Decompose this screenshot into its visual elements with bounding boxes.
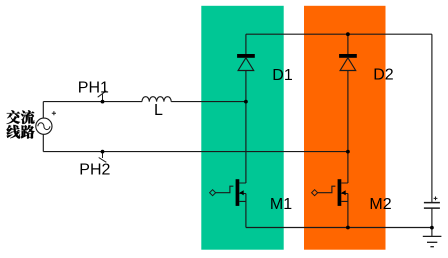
svg-text:D2: D2 [373,67,394,84]
wire: M2 source down to bottom rail [347,194,349,228]
node: PH2 rail to D2 anode [346,150,350,154]
diode D1 [237,54,255,71]
phase-leg highlight band 2 (orange) [304,6,386,250]
wire: AC source top lead [42,102,44,119]
wire: D2 cathode to top rail [347,34,349,54]
PH2 probe tick [99,153,107,163]
svg-text:PH2: PH2 [79,162,110,179]
svg-text:M1: M1 [270,196,292,213]
diode D2 [339,54,357,71]
node: M2 source on bottom rail [346,226,350,230]
wire: bottom rail [246,227,432,229]
node: PH2 junction [101,150,105,154]
AC source V1 [36,111,56,134]
ground [423,236,442,246]
svg-text:L: L [154,102,163,119]
wire: right-side rail down to capacitor [431,34,433,202]
node: D2 cathode on top rail [346,32,350,36]
MOSFET M1 [210,179,246,206]
svg-text:PH1: PH1 [78,79,109,96]
MOSFET M2 [312,179,348,206]
wire: D2 anode down through PH2 node to M2 drain [347,71,349,184]
PH1 probe tick [98,91,107,101]
wire: bottom rail PH2 from source to D2 anode node [43,151,348,153]
node: PH1 junction [101,100,105,104]
wire: capacitor bottom lead to ground node [431,208,433,228]
wire: ground node to ground symbol [431,228,433,237]
wire: D1 anode down through node A to M1 drain [245,71,247,184]
wire: M1 source down to bottom rail [245,194,247,228]
wire: top rail [246,33,432,35]
wire: inductor to node A [171,101,246,103]
svg-text:M2: M2 [369,196,391,213]
inductor L [142,97,171,102]
node: capacitor / ground / bottom rail [430,226,434,230]
wire: D1 cathode to top rail [245,34,247,54]
label AC line (Chinese 交流线路) [7,110,35,138]
wire: AC source bottom lead [42,134,44,151]
phase-leg highlight band 1 (green) [201,6,283,250]
svg-text:D1: D1 [272,67,293,84]
wire: top-left rail from source to inductor [43,101,142,103]
capacitor C1 [424,197,440,209]
node A: inductor / D1 anode / M1 drain [244,100,248,104]
